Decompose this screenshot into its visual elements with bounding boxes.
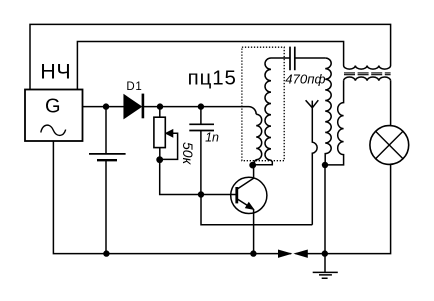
bottom rail from G box bottom to lamp bottom (53, 141, 390, 254)
transformer T2 bottom winding (344, 77, 391, 81)
wire top rail 2 (G box top-right to T2 top-left) (77, 42, 343, 90)
coil L1a (small left winding) (254, 114, 261, 165)
potentiometer wiper wire (162, 133, 178, 159)
transistor collector (237, 165, 254, 189)
svg-text:D1: D1 (126, 81, 142, 93)
node pot top (157, 103, 163, 109)
transistor base wire (201, 194, 237, 196)
node base (198, 191, 204, 197)
sine symbol (41, 125, 66, 135)
battery plate long (89, 153, 126, 155)
wire cap to coil A top (295, 57, 325, 59)
wire pot bottom node down and right to base node (160, 160, 201, 195)
svg-text:50к: 50к (180, 142, 196, 166)
dotted screen box (242, 47, 284, 161)
svg-text:1n: 1n (205, 130, 219, 144)
svg-text:НЧ: НЧ (40, 59, 71, 83)
antenna lead and symbol (306, 100, 319, 225)
wire G output to diode anode (83, 106, 125, 108)
transistor emitter lead (253, 209, 255, 253)
coil B (feed winding) from T2 down, and bottom lead to right node (325, 81, 344, 165)
transformer T2 top winding (344, 66, 391, 70)
diode D1 (124, 95, 141, 118)
node ground (322, 250, 328, 256)
battery lead to bottom rail (105, 160, 107, 253)
wire base node down, right, and antenna stem with hop (201, 195, 312, 225)
coil L1b (big left winding) and wire to cap (253, 58, 290, 165)
transformer T2 core (344, 72, 391, 74)
capacitor 470пф plates (290, 47, 295, 71)
node emitter bottom (250, 250, 256, 256)
generator box G (НЧ) (25, 90, 83, 142)
wire T2 to lamp top (390, 81, 392, 126)
wire top rail 1 (G box top-left to T2 top-right) (30, 24, 391, 89)
potentiometer 50k leads (159, 107, 161, 160)
svg-text:470пф: 470пф (285, 71, 325, 86)
potentiometer 50k body (154, 117, 165, 147)
capacitor 1n plates (189, 124, 214, 130)
node battery bottom (103, 250, 109, 256)
ground (324, 254, 326, 273)
wire right node down to bottom rail (324, 165, 326, 254)
node collector coils (249, 162, 256, 169)
node pot bottom (156, 156, 163, 163)
svg-text:G: G (45, 96, 61, 118)
battery GB lead from node (105, 107, 107, 154)
battery plate short (97, 159, 117, 161)
node battery top (103, 103, 109, 109)
node cap 1n top (198, 103, 204, 109)
lamp HL (370, 126, 409, 165)
transistor VT circle (231, 177, 267, 213)
transistor emitter with arrow (237, 199, 254, 210)
node right coils (322, 162, 328, 168)
wire diode cathode to coil L1a top, with curve into coil (143, 107, 256, 115)
connector arrows on bottom rail (279, 250, 291, 257)
svg-text:пц15: пц15 (188, 66, 237, 89)
capacitor 1n lead bottom (200, 131, 202, 195)
coil A (right tank winding) (325, 58, 331, 165)
capacitor 1n lead top (200, 107, 202, 125)
transistor base bar (235, 187, 238, 203)
potentiometer wiper arrow (166, 130, 173, 137)
